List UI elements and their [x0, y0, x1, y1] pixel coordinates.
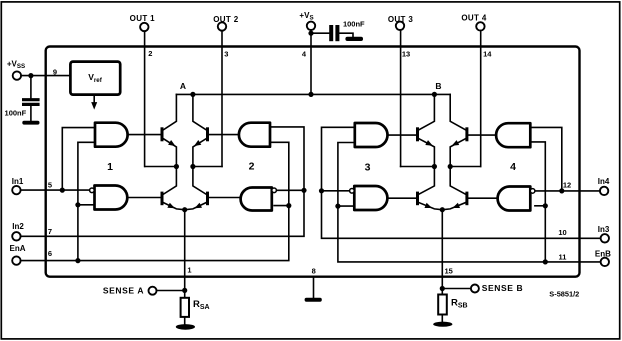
wire Q-A top-right collector: [193, 94, 206, 129]
transistor Q-A top-left base bar: [161, 127, 164, 141]
node Vs decoupling tee: [308, 31, 313, 36]
terminal EnB: [601, 258, 609, 266]
wire EnB riser ch4: [530, 142, 545, 262]
svg-text:6: 6: [48, 249, 52, 258]
terminal +Vss: [13, 71, 21, 79]
node A junction on Vs rail: [190, 92, 195, 97]
wire Q-B top-left collector: [419, 94, 435, 129]
svg-text:SENSE A: SENSE A: [103, 285, 144, 295]
node In2 to ch2 bubble: [301, 188, 306, 193]
inverter bubble ch3: [350, 189, 355, 194]
wire Q-B bottom-left emitter: [419, 203, 442, 210]
wire Q-A top-left emitter: [163, 139, 176, 167]
node Q-B left output junction: [432, 164, 437, 169]
svg-text:3: 3: [224, 50, 228, 59]
wire sense B line: [441, 210, 443, 289]
node EnA to ch2 bottom gate: [286, 203, 291, 208]
capacitor 100nF plate 2: [335, 25, 339, 41]
transistor Q-B top-right base bar: [465, 127, 468, 141]
arrowhead Q-B top-left emitter: [425, 140, 433, 146]
transistor Q-B bottom-right base bar: [465, 192, 468, 206]
wire sense B to resistor: [441, 289, 443, 295]
wire Q-A bottom-left emitter: [163, 203, 184, 210]
svg-text:OUT 1: OUT 1: [130, 14, 156, 23]
terminal OUT1: [140, 23, 148, 31]
svg-text:1: 1: [107, 161, 113, 173]
node sense B junction: [440, 286, 445, 291]
svg-text:SENSE B: SENSE B: [482, 283, 524, 293]
wire OUT1 to bridge A left node: [145, 166, 176, 168]
and gate ch2 bottom: [241, 188, 272, 211]
arrowhead Q-B bottom-right emitter: [452, 203, 460, 208]
wire Vss to Vref pin 9: [21, 75, 70, 77]
wire +Vs pin 4 line: [310, 30, 312, 94]
wire +Vs rail node A to node B: [176, 93, 450, 95]
svg-text:12: 12: [563, 181, 571, 190]
svg-text:100nF: 100nF: [343, 20, 365, 29]
node In4 riser tee: [559, 188, 564, 193]
svg-text:EnA: EnA: [10, 244, 26, 253]
wire OUT4 pin 14 riser: [480, 31, 482, 167]
resistor RSB: [438, 295, 447, 315]
wire OUT3 to bridge B left node: [401, 166, 435, 168]
wire OUT3 pin 13 riser: [400, 30, 402, 167]
wire In3 to ch3 bubble: [322, 190, 350, 192]
wire In2 rail to ch2 riser: [21, 127, 304, 236]
inverter bubble ch2: [272, 188, 277, 193]
node Q-A left output junction: [174, 164, 179, 169]
wire Q-A bottom-right collector: [193, 167, 206, 195]
svg-text:9: 9: [53, 68, 57, 77]
node B junction on Vs rail: [432, 92, 437, 97]
resistor RSA: [181, 298, 189, 317]
transistor Q-B bottom-left base bar: [416, 192, 419, 206]
svg-text:15: 15: [445, 267, 453, 276]
node In3 to ch3 bubble tee: [319, 188, 324, 193]
arrowhead Q-A bottom-right emitter: [195, 203, 203, 209]
terminal OUT3: [396, 22, 404, 30]
transistor Q-A bottom-right base bar: [206, 192, 209, 206]
svg-text:In2: In2: [12, 222, 24, 231]
node EnB to ch4 bottom gate: [543, 203, 548, 208]
node Q-A right output junction: [190, 164, 195, 169]
transistor Q-B top-left base bar: [416, 127, 419, 141]
wire Q-B bottom-right emitter: [442, 203, 465, 210]
block Vref U1: [70, 62, 120, 95]
wire Q-B bottom-right base lead: [468, 197, 497, 199]
wire capacitor to ground: [339, 33, 353, 37]
wire sense A to terminal: [157, 290, 185, 292]
svg-text:In4: In4: [598, 177, 610, 186]
arrowhead Q-A bottom-left emitter: [167, 203, 175, 209]
wire Q-A top-right emitter: [193, 139, 206, 167]
wire pin 8 ground stem: [313, 278, 315, 298]
node Vss cap tee: [28, 73, 33, 78]
terminal In4: [600, 187, 608, 195]
terminal +Vs: [307, 22, 315, 30]
arrowhead Q-B bottom-left emitter: [425, 203, 433, 208]
wire In1 riser to gate1 top input: [62, 128, 95, 191]
terminal In3: [601, 234, 609, 242]
wire OUT2 to bridge A right node: [193, 166, 222, 168]
wire EnB rail: [338, 143, 601, 262]
terminal SENSE B: [471, 285, 479, 293]
arrowhead Q-B top-right emitter: [452, 140, 460, 146]
and gate ch4 bottom: [498, 187, 531, 211]
wire EnA to ch2 bottom gate: [274, 205, 289, 207]
svg-text:1: 1: [187, 266, 191, 275]
IC body outline: [46, 47, 580, 277]
ground symbol left: [22, 121, 39, 125]
svg-text:OUT 4: OUT 4: [461, 14, 487, 23]
arrowhead Vref output: [91, 102, 97, 110]
transistor Q-A top-right base bar: [206, 127, 209, 141]
wire sense A to resistor: [184, 290, 186, 297]
svg-text:OUT 2: OUT 2: [213, 15, 239, 24]
ground symbol RSB: [433, 322, 452, 327]
wire In3 rail to ch3 riser: [322, 191, 601, 239]
wire Q-A bottom-left base lead: [127, 197, 160, 199]
wire Q-B bottom-left collector: [419, 167, 435, 195]
terminal In1: [12, 186, 20, 194]
wire EnA rail: [21, 142, 289, 260]
wire sense A line: [184, 210, 186, 291]
wire OUT1 pin 2 riser: [144, 31, 146, 166]
capacitor 100nF left plate 2: [22, 103, 40, 106]
wire RSA to ground: [184, 317, 186, 325]
wire In1 into IC: [21, 189, 90, 191]
ground symbol top: [345, 37, 363, 41]
wire OUT2 pin 3 riser: [221, 31, 223, 167]
wire Q-B bottom-left base lead: [387, 197, 416, 199]
wire Q-A top-left base lead: [128, 134, 161, 136]
transistor Q-A bottom-left base bar: [161, 192, 164, 206]
arrowhead Q-A top-right emitter: [194, 140, 201, 146]
wire EnB to ch3 bottom gate: [338, 205, 354, 207]
capacitor 100nF left plate 1: [22, 98, 40, 101]
svg-text:100nF: 100nF: [5, 109, 27, 118]
wire Vs to capacitor: [311, 32, 329, 34]
svg-text:11: 11: [559, 252, 567, 261]
svg-text:3: 3: [365, 162, 371, 174]
ground symbol RSA: [176, 324, 195, 330]
wire OUT4 to bridge B right node: [450, 166, 481, 168]
svg-text:A: A: [180, 81, 186, 91]
node Q-A common emitter: [182, 207, 187, 212]
wire cap to ground left: [30, 106, 32, 121]
terminal OUT4: [476, 22, 484, 30]
svg-text:8: 8: [312, 267, 316, 276]
wire Q-A bottom-left collector: [163, 167, 176, 195]
svg-text:In3: In3: [598, 225, 610, 234]
ground symbol pin 8: [305, 298, 322, 302]
wire Vref output arrow stem: [93, 95, 95, 104]
wire Vss cap stem: [30, 76, 32, 99]
wire Q-A bottom-right base lead: [209, 197, 241, 199]
terminal OUT2: [218, 22, 226, 30]
and gate ch1 top: [95, 123, 128, 147]
wire RSB to ground: [441, 315, 443, 323]
svg-text:14: 14: [483, 50, 492, 59]
node EnA to gate1 lower input: [75, 202, 80, 207]
svg-text:2: 2: [249, 161, 255, 173]
svg-text:5: 5: [48, 180, 52, 189]
wire Q-B top-right emitter: [450, 139, 465, 167]
wire Q-B top-left emitter: [419, 139, 435, 167]
and gate ch4 top: [496, 123, 530, 147]
wire Q-A bottom-right emitter: [185, 203, 206, 210]
svg-text:B: B: [435, 81, 441, 91]
wire Q-B top-right collector: [450, 94, 465, 129]
and gate ch2 top: [239, 123, 270, 147]
node EnB riser ch4 tee: [543, 259, 548, 264]
svg-text:13: 13: [402, 50, 410, 59]
node EnA riser tee: [75, 258, 80, 263]
inverter bubble ch4: [530, 189, 535, 194]
wire Q-B top-right base lead: [468, 134, 496, 136]
node sense A junction: [182, 288, 187, 293]
capacitor 100nF plate 1: [329, 25, 333, 41]
wire In4 riser to ch4 top input: [530, 127, 562, 190]
and gate ch3 bottom: [354, 186, 387, 210]
wire In3 riser upper: [322, 127, 355, 191]
arrowhead Q-A top-left emitter: [168, 140, 175, 146]
svg-text:10: 10: [558, 228, 566, 237]
wire In2 to ch2 bubble: [276, 189, 304, 191]
svg-text:EnB: EnB: [595, 249, 611, 258]
and gate ch1 bottom: [95, 186, 128, 210]
node In1 riser tee: [60, 188, 65, 193]
node EnB to ch3 bottom gate: [335, 204, 340, 209]
svg-text:In1: In1: [12, 177, 24, 186]
wire EnA riser ch1: [78, 142, 95, 260]
inverter bubble ch1: [90, 188, 95, 193]
wire Q-A top-left collector: [163, 94, 176, 129]
svg-text:4: 4: [510, 161, 516, 173]
terminal SENSE A: [149, 287, 157, 295]
wire EnB to ch4 bottom gate: [535, 205, 545, 207]
svg-text:7: 7: [48, 227, 52, 236]
svg-text:2: 2: [148, 49, 152, 58]
wire Q-B top-left base lead: [388, 134, 417, 136]
node Q-B right output junction: [448, 164, 453, 169]
svg-text:S-5851/2: S-5851/2: [549, 290, 579, 299]
terminal EnA: [12, 256, 20, 264]
node +Vs rail junction: [308, 92, 313, 97]
and gate ch3 top: [355, 123, 388, 147]
wire Q-A top-right base lead: [209, 134, 239, 136]
wire Q-B bottom-right collector: [450, 167, 465, 195]
wire In4 into IC: [535, 190, 600, 192]
node Q-B common emitter: [440, 207, 445, 212]
wire sense B to terminal: [442, 288, 471, 290]
wire EnA to ch1 bottom gate: [78, 204, 95, 206]
terminal In2: [12, 232, 20, 240]
